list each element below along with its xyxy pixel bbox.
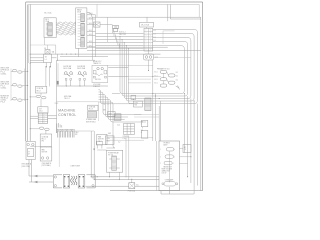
svg-text:0.92 uF: 0.92 uF: [162, 173, 167, 175]
svg-text:LINE FILTER: LINE FILTER: [71, 166, 81, 168]
svg-text:CONTROL: CONTROL: [58, 113, 76, 117]
svg-text:FM-1: FM-1: [98, 141, 102, 143]
svg-text:N-2: N-2: [176, 79, 178, 81]
svg-text:DOOR SW: DOOR SW: [77, 66, 85, 68]
svg-text:NO-1: NO-1: [154, 72, 158, 74]
svg-text:WHT 12-2: WHT 12-2: [119, 34, 126, 36]
svg-text:P 3-4: P 3-4: [1, 102, 5, 104]
svg-text:L-1: L-1: [45, 59, 47, 61]
svg-text:MOTOR: MOTOR: [98, 139, 104, 141]
svg-text:N-2: N-2: [176, 76, 178, 78]
svg-text:T-2: T-2: [184, 149, 186, 151]
svg-text:MOTOR: MOTOR: [42, 151, 48, 153]
svg-text:RLY-2: RLY-2: [37, 90, 41, 92]
svg-text:COM-1: COM-1: [1, 88, 7, 90]
svg-text:CON: CON: [106, 138, 109, 140]
svg-text:H.V. FUSE: H.V. FUSE: [93, 84, 100, 86]
svg-text:BLK: BLK: [153, 40, 156, 42]
svg-text:TT: TT: [28, 151, 30, 153]
svg-text:DOOR SW: DOOR SW: [63, 66, 71, 68]
svg-text:NO-1: NO-1: [154, 83, 158, 85]
svg-text:RY-5: RY-5: [106, 140, 109, 142]
svg-text:N-2: N-2: [176, 72, 178, 74]
svg-text:RLY-3: RLY-3: [89, 109, 93, 111]
svg-text:12P: 12P: [75, 134, 78, 136]
svg-text:LMP: LMP: [108, 133, 111, 135]
svg-text:CON: CON: [135, 103, 138, 105]
svg-text:MC-2 CN-B: MC-2 CN-B: [141, 25, 149, 27]
svg-text:NO-1: NO-1: [154, 75, 158, 77]
svg-text:RY4: RY4: [135, 105, 138, 107]
svg-text:NO-1: NO-1: [154, 79, 158, 81]
svg-text:COM SW: COM SW: [123, 136, 130, 138]
svg-text:HIGH VOLT: HIGH VOLT: [93, 61, 101, 63]
svg-text:YEL 1-2: YEL 1-2: [64, 98, 70, 100]
svg-text:COM-1: COM-1: [1, 74, 7, 76]
svg-text:CN-B: CN-B: [77, 11, 81, 13]
svg-text:HV RECT: HV RECT: [164, 143, 171, 145]
svg-text:2M 250V: 2M 250V: [95, 79, 101, 81]
svg-text:MC-1: MC-1: [45, 19, 49, 21]
svg-text:CN-1: CN-1: [39, 111, 43, 113]
svg-text:C-10: C-10: [117, 125, 120, 127]
svg-text:MC CN-A: MC CN-A: [44, 11, 52, 14]
svg-text:LVT: LVT: [39, 109, 42, 111]
svg-text:MOTOR SM-1: MOTOR SM-1: [86, 121, 96, 123]
svg-text:BLK: BLK: [153, 30, 156, 32]
svg-text:C-2: C-2: [118, 142, 120, 144]
svg-text:NC: NC: [184, 147, 186, 149]
svg-text:RLY-1: RLY-1: [42, 138, 46, 140]
